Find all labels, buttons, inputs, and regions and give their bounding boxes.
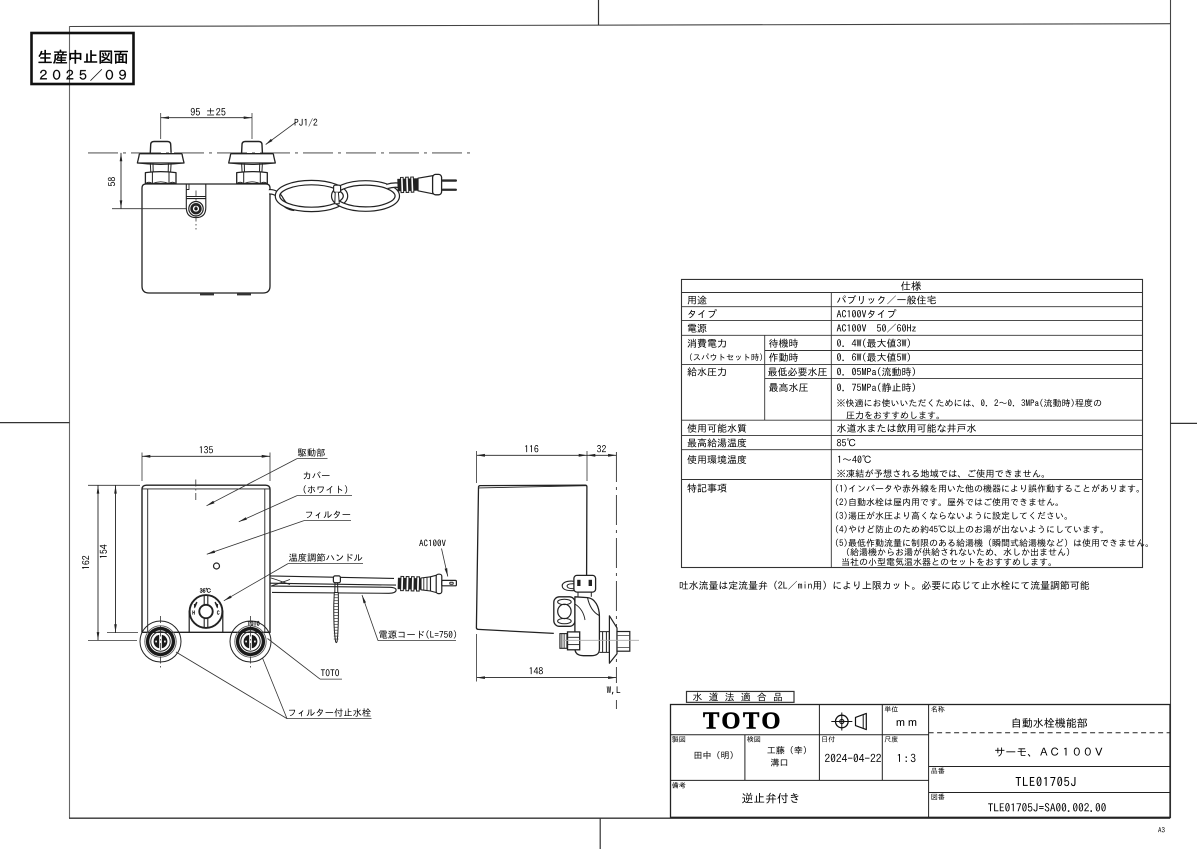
label 温度調節ハンドル bbox=[289, 553, 362, 561]
faucet connector cap bbox=[150, 142, 171, 153]
label W,L bbox=[607, 686, 621, 694]
sheet frame right border bbox=[1170, 0, 1172, 818]
plug prongs (top view) bbox=[442, 179, 457, 181]
label フィルター bbox=[306, 511, 350, 519]
title block vertical dividers bbox=[818, 705, 820, 781]
side view dimension 116 bbox=[477, 454, 587, 456]
faucet connector cap bbox=[242, 142, 263, 153]
spec table outer border bbox=[682, 279, 1143, 567]
spec table column line inner bbox=[830, 293, 832, 568]
label 電源コード(L=750) bbox=[379, 630, 456, 638]
stamp text 2025/09 bbox=[40, 69, 126, 81]
spec table column line sub bbox=[764, 335, 766, 420]
temperature dial label H bbox=[193, 611, 195, 615]
side view body top edge detail bbox=[479, 486, 587, 488]
row 特記事項 bbox=[687, 483, 726, 492]
plug body (top view) bbox=[418, 176, 433, 194]
front view extension lines for heights bbox=[88, 484, 140, 486]
title block outer box bbox=[671, 705, 1171, 818]
stop valve inner ring bbox=[151, 632, 170, 651]
cord strain relief ribs (top view) bbox=[397, 177, 418, 193]
front view plug collar bbox=[421, 577, 431, 591]
row タイプ bbox=[688, 309, 717, 318]
faucet connector neck bbox=[242, 163, 263, 172]
label 尺度 bbox=[885, 736, 898, 742]
front view cable tie head bbox=[333, 576, 340, 583]
front view plug face bbox=[436, 574, 442, 593]
label カバー（ホワイト） bbox=[304, 471, 330, 479]
front view body bottom edge bbox=[141, 631, 270, 633]
front view cable tie band bbox=[335, 583, 338, 593]
front view cord lower tube bbox=[271, 586, 396, 593]
power cord exit from body (top view) bbox=[269, 192, 295, 209]
side view dimension extension lines bbox=[476, 451, 478, 483]
temperature dial outer ring bbox=[190, 595, 223, 628]
spec table title 仕様 bbox=[901, 281, 921, 290]
top view valve screw bbox=[189, 202, 203, 216]
side view body bbox=[476, 485, 587, 633]
front view strain relief ribs bbox=[398, 576, 421, 591]
value 工藤（幸） bbox=[767, 746, 805, 754]
side view holder stem bbox=[577, 592, 579, 597]
row 用途 bbox=[688, 296, 707, 305]
value 1:3 bbox=[898, 754, 916, 762]
power cord to plug (top view) bbox=[387, 185, 400, 186]
title block right column dividers bbox=[929, 732, 1170, 734]
water law compliance box bbox=[687, 691, 795, 702]
label 駆動部 bbox=[298, 448, 325, 456]
side view hex nut bbox=[568, 632, 580, 650]
top view screw center mark bbox=[195, 191, 197, 230]
side view threaded stub bbox=[560, 634, 568, 649]
stop valve hub bbox=[154, 635, 168, 649]
temperature dial bottom channel bbox=[203, 618, 205, 627]
centering mark right bbox=[1170, 422, 1197, 424]
centering mark bottom bbox=[599, 818, 601, 849]
temperature dial top channel bbox=[203, 596, 205, 605]
side view dimension 148 bbox=[477, 677, 617, 679]
cable tie serrated tail bbox=[334, 593, 339, 643]
value 逆止弁付き bbox=[742, 793, 798, 804]
value mm bbox=[897, 720, 917, 726]
value TLE01705J=SA00.002.00 bbox=[988, 803, 1106, 812]
stamp text 生産中止図面 bbox=[39, 50, 128, 64]
faucet connector bell flange bbox=[229, 154, 276, 163]
side view dimension 32 bbox=[587, 454, 616, 456]
title block horizontal dividers bbox=[670, 734, 929, 736]
value TLE01705J bbox=[1016, 777, 1076, 786]
stop valve bold ring bbox=[238, 629, 264, 655]
side view valve centerline bbox=[563, 639, 639, 641]
temperature dial inner ring bbox=[199, 605, 212, 618]
label 備考 bbox=[672, 782, 685, 788]
centering mark top bbox=[598, 0, 600, 25]
stop valve thin ring bbox=[145, 626, 176, 657]
front view cord upper tube bbox=[270, 576, 396, 585]
label PJ1/2 bbox=[295, 118, 318, 126]
centering mark left bbox=[0, 422, 70, 424]
side view escutcheon cone bbox=[609, 616, 617, 663]
top view center fixture bbox=[186, 184, 206, 218]
front view cover top seam bbox=[142, 488, 269, 490]
label フィルター付止水栓 bbox=[289, 708, 371, 716]
front view cover side seams bbox=[147, 489, 149, 632]
label 日付 bbox=[822, 736, 834, 742]
note below table 吐水流量 bbox=[680, 581, 1089, 590]
dimension 58 extension line bbox=[112, 208, 187, 210]
label 検図 bbox=[747, 736, 760, 742]
label 図番 bbox=[931, 794, 944, 800]
stop valve center mark bbox=[160, 616, 162, 669]
label PJ1/2 leader bbox=[266, 123, 296, 145]
top view body bbox=[142, 184, 270, 293]
row 最高給湯温度 bbox=[688, 438, 747, 447]
stop valve inner ring bbox=[241, 632, 260, 651]
front view dimension 162 bbox=[97, 485, 99, 640]
production-discontinued stamp box bbox=[32, 33, 134, 84]
front view sensor hole bbox=[214, 563, 220, 569]
faucet connector neck bbox=[150, 163, 171, 172]
third angle projection symbol bbox=[836, 715, 849, 728]
top view body bottom tabs bbox=[200, 293, 214, 295]
sheet frame left border bbox=[69, 26, 71, 818]
row 使用環境温度 bbox=[687, 455, 746, 464]
plug face (top view) bbox=[433, 174, 442, 194]
value 2024-04-22 bbox=[825, 754, 881, 762]
stop valve hub bbox=[244, 635, 258, 649]
power cord right loop (top view) bbox=[334, 183, 398, 209]
front view top center mark bbox=[195, 480, 197, 503]
svg-text:TOTO: TOTO bbox=[703, 708, 783, 735]
front view plug cone bbox=[431, 575, 437, 592]
label 製図 bbox=[672, 736, 685, 742]
temperature dial label 36C bbox=[200, 588, 211, 593]
label TOTO bbox=[321, 669, 339, 676]
side view dimension 148 extension line bbox=[476, 634, 478, 682]
front view plug prong with hole bbox=[442, 580, 457, 585]
label 品番 bbox=[932, 768, 945, 774]
front view dimension 135 extension lines bbox=[141, 453, 143, 482]
dimension 95 +-25 extension lines bbox=[160, 113, 162, 139]
stop valve center mark bbox=[250, 616, 252, 669]
temperature dial right arrow arc bbox=[215, 602, 217, 607]
stop valve thin ring bbox=[235, 626, 266, 657]
side view W.L line bbox=[615, 452, 617, 683]
side view wall pipe stub bbox=[617, 632, 630, 652]
row 電源 bbox=[688, 324, 707, 333]
sheet frame bottom border bbox=[69, 817, 1170, 819]
temperature dial left arrow arc bbox=[195, 602, 197, 607]
stop valve outer circle bbox=[140, 621, 181, 662]
faucet connector bell flange bbox=[137, 154, 184, 163]
label AC100V (front view) bbox=[419, 540, 446, 547]
faucet connector hex nut bbox=[237, 172, 268, 184]
label 名称 bbox=[931, 706, 944, 712]
side view plug holder clip bbox=[562, 581, 574, 591]
dimension 58 bbox=[120, 153, 122, 209]
TOTO logo on body bbox=[248, 621, 260, 626]
faucet connector hex nut bbox=[145, 172, 176, 184]
row 給水圧力 bbox=[687, 367, 725, 376]
front view dimension 135 bbox=[142, 455, 270, 457]
side view valve elbow body bbox=[575, 597, 600, 656]
spec table row lines bbox=[682, 292, 1143, 294]
value 自動水栓機能部 bbox=[1013, 718, 1087, 728]
value サーモ、AC100V bbox=[995, 748, 1102, 757]
front view dimension 154 bbox=[115, 485, 117, 632]
note 快適にお使い bbox=[837, 399, 1101, 407]
cable tie (top view) bbox=[334, 185, 341, 192]
sheet frame top border bbox=[69, 24, 1170, 27]
side view union nut bbox=[599, 632, 609, 653]
label 単位 bbox=[885, 706, 898, 712]
front view cord crossing at body exit bbox=[271, 578, 290, 586]
temperature dial label C bbox=[217, 610, 219, 614]
value 田中（明） bbox=[695, 751, 733, 759]
side view valve inlet flange bbox=[554, 597, 575, 627]
front view body cover bbox=[142, 485, 270, 632]
stop valve outer circle bbox=[230, 621, 271, 662]
stop valve bold ring bbox=[148, 629, 174, 655]
dimension 95 +-25 bbox=[161, 117, 252, 119]
row 使用可能水質 bbox=[687, 424, 746, 433]
row 消費電力 bbox=[688, 339, 726, 348]
dial housing chin bbox=[188, 611, 190, 633]
top view centerline bbox=[88, 152, 473, 154]
sheet size A3 bbox=[1158, 827, 1165, 832]
power cord left loop (top view) bbox=[278, 183, 346, 210]
